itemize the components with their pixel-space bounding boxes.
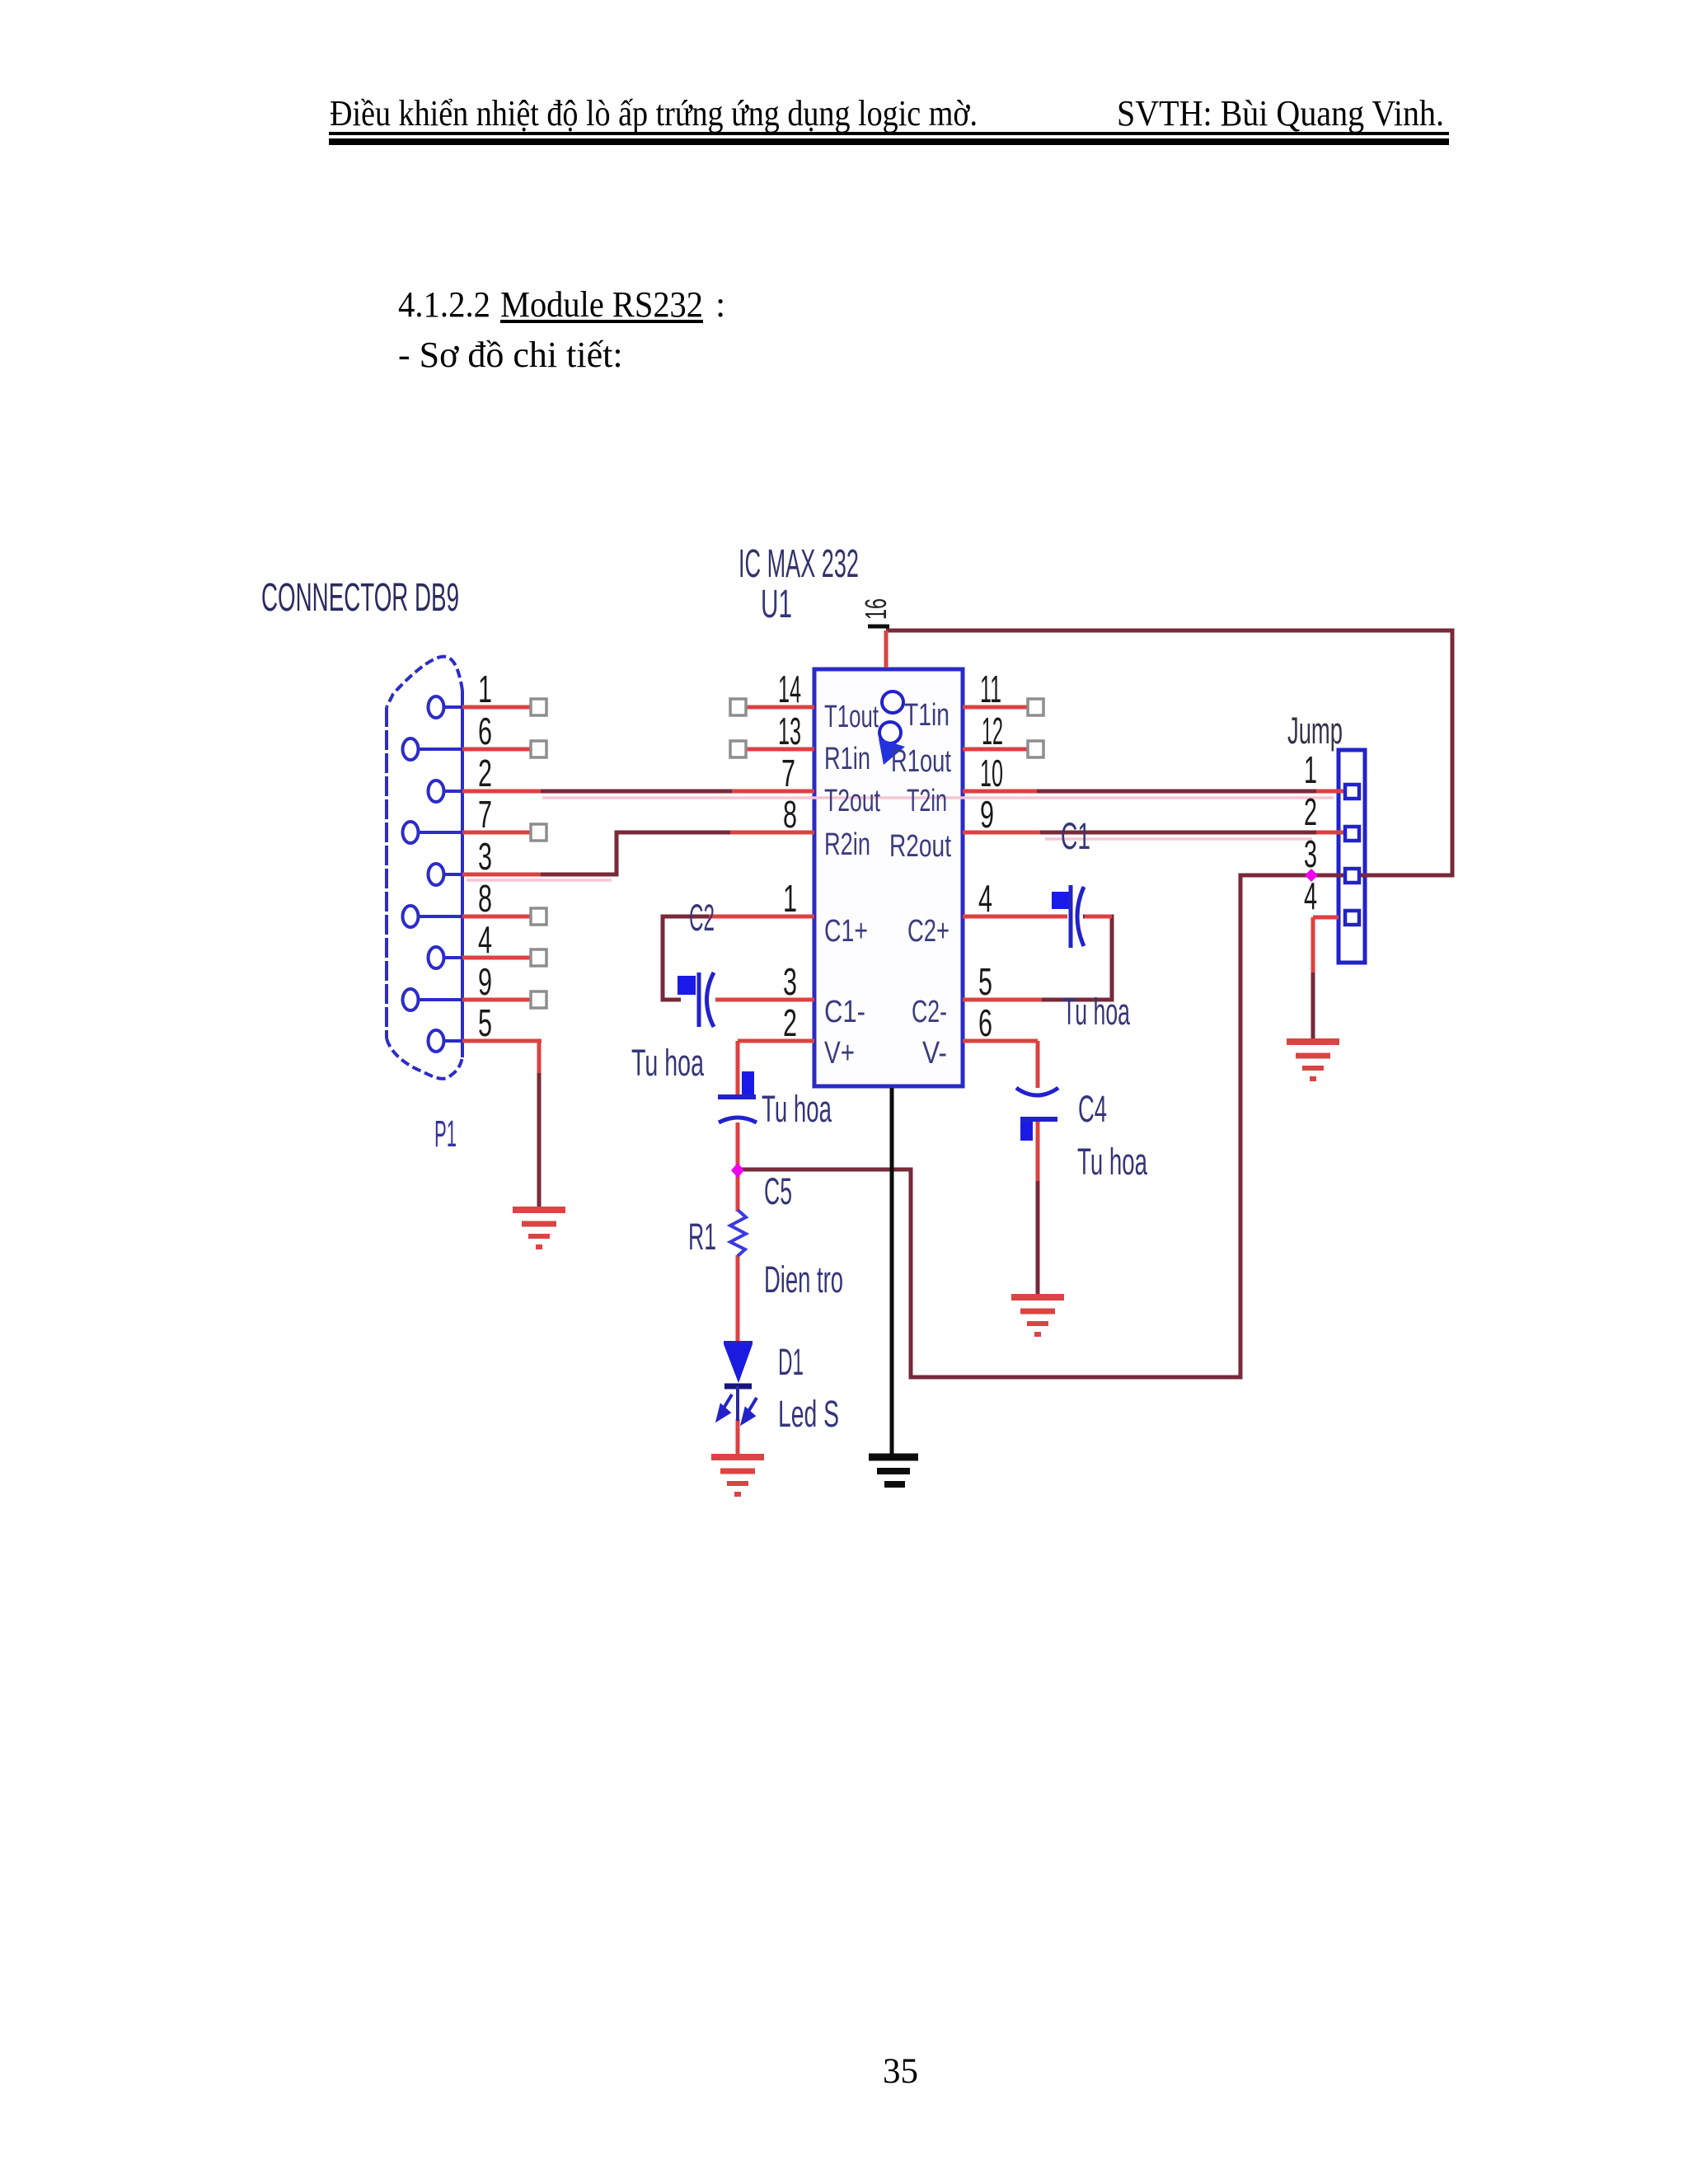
svg-text:V+: V+ bbox=[824, 1036, 855, 1071]
svg-text:- Sơ đồ chi tiết:: - Sơ đồ chi tiết: bbox=[398, 335, 623, 375]
svg-text:R1in: R1in bbox=[824, 742, 870, 776]
svg-text:R1out: R1out bbox=[891, 744, 951, 779]
svg-text:8: 8 bbox=[478, 877, 492, 920]
svg-text:3: 3 bbox=[1304, 832, 1317, 875]
svg-text:C1-: C1- bbox=[824, 995, 865, 1029]
svg-text:Điều khiển nhiệt độ lò ấp trứn: Điều khiển nhiệt độ lò ấp trứng ứng dụng… bbox=[330, 93, 978, 134]
svg-text:T2out: T2out bbox=[824, 784, 880, 818]
svg-text:9: 9 bbox=[478, 960, 492, 1003]
svg-text:2: 2 bbox=[1304, 790, 1317, 833]
svg-text:5: 5 bbox=[478, 1001, 492, 1044]
svg-text:4.1.2.2: 4.1.2.2 bbox=[398, 284, 490, 325]
svg-text:12: 12 bbox=[982, 710, 1003, 752]
svg-text:V-: V- bbox=[922, 1036, 947, 1071]
svg-text:7: 7 bbox=[478, 793, 492, 836]
svg-text:Led S: Led S bbox=[778, 1393, 839, 1435]
svg-text:T2in: T2in bbox=[907, 784, 947, 818]
svg-text:Module RS232: Module RS232 bbox=[500, 284, 703, 325]
svg-text:R2out: R2out bbox=[889, 829, 951, 864]
svg-text:10: 10 bbox=[980, 752, 1003, 794]
svg-text:5: 5 bbox=[978, 960, 992, 1003]
svg-text:1: 1 bbox=[478, 668, 492, 710]
svg-text:13: 13 bbox=[778, 710, 801, 752]
svg-text:14: 14 bbox=[778, 668, 801, 710]
svg-text:IC MAX 232: IC MAX 232 bbox=[738, 542, 859, 586]
svg-text:Tu hoa: Tu hoa bbox=[762, 1088, 832, 1130]
svg-text::: : bbox=[715, 284, 725, 325]
svg-text:C5: C5 bbox=[764, 1170, 792, 1212]
svg-text:T1out: T1out bbox=[824, 700, 879, 734]
svg-text:Tu hoa: Tu hoa bbox=[1077, 1141, 1148, 1183]
svg-text:35: 35 bbox=[883, 2052, 918, 2091]
svg-text:C2+: C2+ bbox=[907, 914, 949, 949]
svg-text:R2in: R2in bbox=[824, 827, 870, 862]
svg-text:SVTH: Bùi Quang Vinh.: SVTH: Bùi Quang Vinh. bbox=[1117, 93, 1444, 134]
svg-text:Tu hoa: Tu hoa bbox=[1062, 991, 1131, 1033]
svg-text:C2-: C2- bbox=[912, 995, 947, 1029]
svg-text:C4: C4 bbox=[1078, 1088, 1107, 1130]
svg-text:4: 4 bbox=[1304, 874, 1317, 917]
svg-text:C1+: C1+ bbox=[824, 914, 868, 949]
svg-text:6: 6 bbox=[478, 710, 492, 752]
svg-text:1: 1 bbox=[1304, 748, 1317, 791]
svg-text:Jump: Jump bbox=[1287, 710, 1343, 752]
svg-text:16: 16 bbox=[859, 598, 893, 620]
svg-text:U1: U1 bbox=[761, 583, 792, 626]
svg-text:Tu hoa: Tu hoa bbox=[631, 1042, 705, 1084]
svg-text:C1: C1 bbox=[1061, 815, 1090, 857]
svg-text:3: 3 bbox=[783, 960, 797, 1003]
svg-text:D1: D1 bbox=[778, 1341, 804, 1383]
svg-text:R1: R1 bbox=[688, 1216, 716, 1258]
svg-text:3: 3 bbox=[478, 835, 492, 878]
svg-text:2: 2 bbox=[783, 1001, 797, 1044]
svg-text:7: 7 bbox=[781, 752, 795, 794]
svg-text:8: 8 bbox=[783, 793, 797, 836]
svg-text:2: 2 bbox=[478, 752, 492, 794]
svg-text:T1in: T1in bbox=[904, 698, 949, 733]
svg-text:CONNECTOR DB9: CONNECTOR DB9 bbox=[261, 576, 459, 620]
svg-text:6: 6 bbox=[978, 1001, 992, 1044]
svg-text:P1: P1 bbox=[434, 1113, 457, 1155]
svg-text:9: 9 bbox=[980, 793, 994, 836]
svg-text:C2: C2 bbox=[689, 897, 715, 939]
svg-text:1: 1 bbox=[783, 877, 797, 920]
svg-text:11: 11 bbox=[980, 668, 1001, 710]
svg-text:Dien tro: Dien tro bbox=[764, 1258, 843, 1301]
svg-text:4: 4 bbox=[478, 918, 492, 961]
svg-text:4: 4 bbox=[978, 877, 992, 920]
